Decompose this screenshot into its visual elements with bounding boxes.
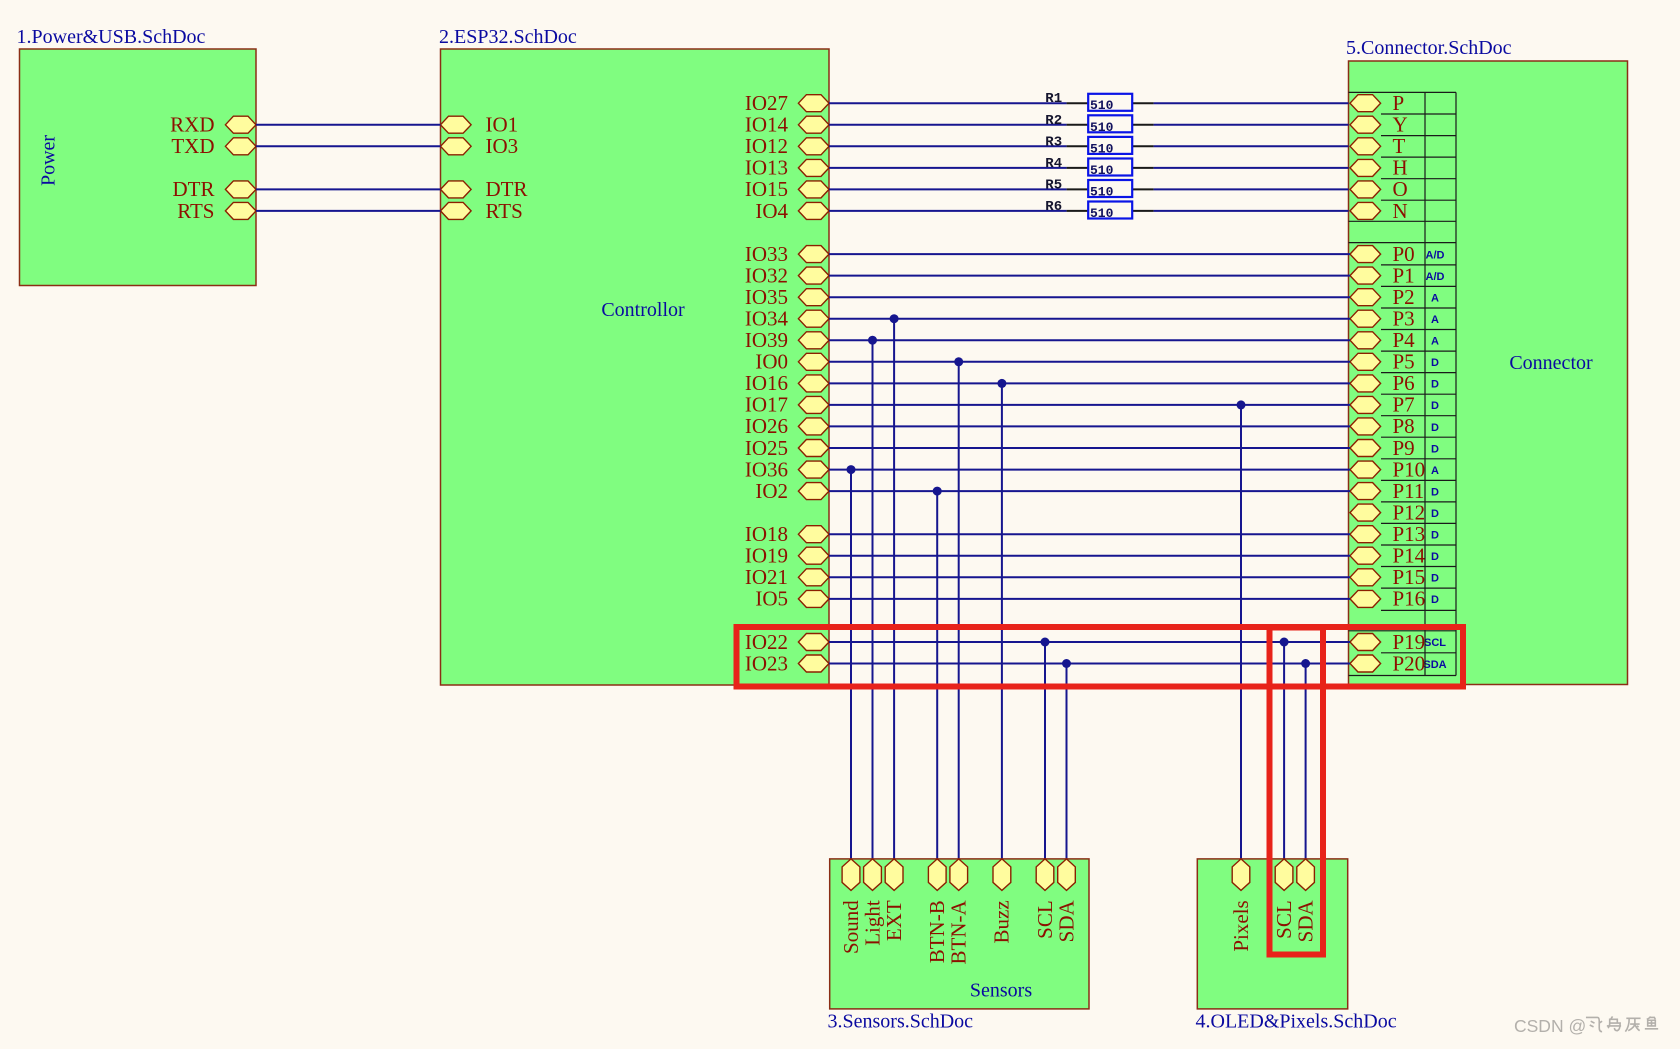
port P8 (Connector)	[1350, 414, 1439, 438]
wire DTR Power to ESP32	[256, 188, 441, 190]
svg-text:IO13: IO13	[745, 156, 788, 180]
svg-text:P8: P8	[1393, 414, 1415, 438]
svg-text:510: 510	[1090, 141, 1114, 156]
svg-text:D: D	[1431, 379, 1439, 391]
port RTS (Power)	[177, 199, 256, 223]
sheet symbol 5.Connector	[1349, 61, 1628, 685]
wire ESP32 to Connector	[829, 339, 1350, 341]
wire drop to SDA	[1066, 664, 1068, 859]
svg-text:SDA: SDA	[1423, 659, 1446, 671]
wire IO row to resistor R4	[829, 167, 1067, 169]
wire drop to SCL	[1044, 642, 1046, 859]
sheet symbol 2.ESP32 (Controllor)	[441, 49, 830, 685]
svg-text:IO5: IO5	[755, 587, 788, 611]
svg-text:510: 510	[1090, 120, 1114, 135]
junction at SCL drop	[1041, 638, 1050, 647]
svg-text:D: D	[1431, 551, 1439, 563]
junction at SDA2 drop	[1301, 659, 1310, 668]
svg-text:P9: P9	[1393, 436, 1415, 460]
port P12 (Connector)	[1350, 500, 1439, 524]
svg-text:D: D	[1431, 594, 1439, 606]
port IO15 (ESP32 right)	[745, 177, 829, 201]
port IO21 (ESP32 right)	[745, 565, 829, 589]
svg-text:510: 510	[1090, 184, 1114, 199]
svg-text:510: 510	[1090, 98, 1114, 113]
svg-text:H: H	[1393, 156, 1408, 180]
port IO1 (ESP32 left)	[441, 113, 519, 137]
port P6 (Connector)	[1350, 371, 1439, 395]
svg-text:IO12: IO12	[745, 134, 788, 158]
svg-text:A: A	[1431, 293, 1439, 305]
port TXD (Power)	[171, 134, 256, 158]
resistor R1 value 510	[1045, 91, 1153, 113]
svg-text:IO35: IO35	[745, 285, 788, 309]
port IO5 (ESP32 right)	[755, 587, 829, 611]
junction at Pixels drop	[1237, 400, 1246, 409]
svg-text:TXD: TXD	[171, 134, 214, 158]
wire RXD Power to ESP32	[256, 124, 441, 126]
svg-text:IO14: IO14	[745, 113, 789, 137]
junction at EXT drop	[890, 314, 899, 323]
port H (Connector)	[1350, 156, 1408, 180]
svg-text:IO23: IO23	[745, 651, 788, 675]
port P0 (Connector)	[1350, 242, 1445, 266]
port P (Connector)	[1350, 91, 1404, 115]
svg-text:A/D: A/D	[1426, 249, 1445, 261]
svg-text:IO36: IO36	[745, 457, 788, 481]
port IO18 (ESP32 right)	[745, 522, 829, 546]
wire drop to EXT	[893, 319, 895, 859]
resistor R3 value 510	[1045, 134, 1153, 156]
port IO25 (ESP32 right)	[745, 436, 829, 460]
svg-text:SCL: SCL	[1272, 900, 1296, 939]
sheet symbol 1.Power&USB (Power)	[20, 49, 257, 286]
port IO36 (ESP32 right)	[745, 457, 829, 481]
junction at SCL2 drop	[1280, 638, 1289, 647]
wire drop to SCL2	[1283, 642, 1285, 859]
junction at Buzz drop	[997, 379, 1006, 388]
svg-text:A: A	[1431, 314, 1439, 326]
svg-text:P: P	[1393, 91, 1405, 115]
svg-text:P16: P16	[1393, 587, 1426, 611]
wire ESP32 to Connector	[829, 447, 1350, 449]
svg-text:SDA: SDA	[1054, 899, 1078, 942]
port N (Connector)	[1350, 199, 1408, 223]
resistor R2 value 510	[1045, 113, 1153, 135]
wire ESP32 to Connector	[829, 598, 1350, 600]
svg-text:T: T	[1393, 134, 1406, 158]
svg-text:A: A	[1431, 336, 1439, 348]
svg-text:P6: P6	[1393, 371, 1415, 395]
svg-text:IO25: IO25	[745, 436, 788, 460]
port IO32 (ESP32 right)	[745, 263, 829, 287]
wire drop to Light	[872, 340, 874, 859]
port Y (Connector)	[1350, 113, 1408, 137]
port T (Connector)	[1350, 134, 1406, 158]
port P15 (Connector)	[1350, 565, 1439, 589]
svg-text:IO17: IO17	[745, 393, 788, 417]
port P11 (Connector)	[1350, 479, 1439, 503]
port IO35 (ESP32 right)	[745, 285, 829, 309]
port P20 (Connector)	[1350, 651, 1447, 675]
port IO2 (ESP32 right)	[755, 479, 829, 503]
wire ESP32 to Connector	[829, 425, 1350, 427]
svg-text:R1: R1	[1045, 91, 1062, 107]
port IO34 (ESP32 right)	[745, 307, 829, 331]
svg-text:IO0: IO0	[755, 350, 788, 374]
port IO0 (ESP32 right)	[755, 350, 829, 374]
red highlight box IO22/IO23 row	[737, 627, 1464, 687]
wire ESP32 to Connector	[829, 576, 1350, 578]
port BTN-A (Sensors)	[947, 859, 971, 965]
wire ESP32 to Connector	[829, 318, 1350, 320]
svg-text:O: O	[1393, 177, 1408, 201]
svg-text:P13: P13	[1393, 522, 1426, 546]
svg-text:N: N	[1393, 199, 1408, 223]
wire RTS Power to ESP32	[256, 210, 441, 212]
svg-text:IO26: IO26	[745, 414, 788, 438]
wire ESP32 to Connector	[829, 275, 1350, 277]
port P1 (Connector)	[1350, 263, 1445, 287]
svg-text:D: D	[1431, 422, 1439, 434]
wire ESP32 to Connector	[829, 490, 1350, 492]
svg-text:IO33: IO33	[745, 242, 788, 266]
svg-text:P2: P2	[1393, 285, 1415, 309]
resistor R6 value 510	[1045, 199, 1153, 221]
junction at BTN-A drop	[954, 357, 963, 366]
sheet symbol 4.OLED&Pixels	[1197, 859, 1347, 1009]
svg-text:P11: P11	[1393, 479, 1425, 503]
svg-text:510: 510	[1090, 163, 1114, 178]
wire resistor R2 to Connector	[1154, 124, 1349, 126]
svg-text:R6: R6	[1045, 199, 1062, 215]
svg-text:Buzz: Buzz	[990, 900, 1014, 943]
wire IO row to resistor R5	[829, 188, 1067, 190]
wire drop to Pixels	[1240, 405, 1242, 859]
svg-text:EXT: EXT	[882, 900, 906, 941]
svg-text:P12: P12	[1393, 500, 1426, 524]
port DTR (Power)	[173, 177, 257, 201]
port P5 (Connector)	[1350, 350, 1439, 374]
port SCL (Sensors)	[1033, 859, 1057, 939]
svg-text:RTS: RTS	[486, 199, 523, 223]
wire drop to Buzz	[1001, 383, 1003, 859]
port P3 (Connector)	[1350, 307, 1439, 331]
svg-text:P4: P4	[1393, 328, 1416, 352]
wire ESP32 to Connector	[829, 296, 1350, 298]
red highlight box SCL/SDA column	[1270, 628, 1324, 955]
svg-text:P5: P5	[1393, 350, 1415, 374]
port IO33 (ESP32 right)	[745, 242, 829, 266]
svg-text:Pixels: Pixels	[1229, 900, 1253, 951]
port P10 (Connector)	[1350, 457, 1439, 481]
svg-text:P14: P14	[1393, 544, 1426, 568]
svg-text:Power: Power	[38, 135, 60, 186]
port IO17 (ESP32 right)	[745, 393, 829, 417]
port P16 (Connector)	[1350, 587, 1439, 611]
wire IO row to resistor R3	[829, 145, 1067, 147]
svg-text:IO19: IO19	[745, 544, 788, 568]
svg-text:SCL: SCL	[1424, 637, 1446, 649]
wire resistor R5 to Connector	[1154, 188, 1349, 190]
svg-text:P19: P19	[1393, 630, 1426, 654]
svg-text:Connector: Connector	[1509, 352, 1593, 374]
svg-text:3.Sensors.SchDoc: 3.Sensors.SchDoc	[828, 1011, 974, 1033]
wire drop to SDA2	[1305, 664, 1307, 859]
svg-text:5.Connector.SchDoc: 5.Connector.SchDoc	[1346, 37, 1512, 59]
svg-text:P20: P20	[1393, 651, 1426, 675]
svg-text:P10: P10	[1393, 457, 1426, 481]
port SCL (OLED&Pixels)	[1272, 859, 1296, 939]
svg-text:IO3: IO3	[486, 134, 519, 158]
svg-text:R4: R4	[1045, 156, 1062, 172]
connector pin table lines	[1349, 92, 1457, 675]
port Buzz (Sensors)	[990, 859, 1014, 944]
svg-text:Sound: Sound	[839, 900, 863, 954]
wire ESP32 to Connector	[829, 641, 1350, 643]
resistor R4 value 510	[1045, 156, 1153, 178]
svg-text:RTS: RTS	[177, 199, 214, 223]
port IO14 (ESP32 right)	[745, 113, 829, 137]
wire drop to BTN-A	[958, 362, 960, 859]
wire IO row to resistor R1	[829, 102, 1067, 104]
wire resistor R3 to Connector	[1154, 145, 1349, 147]
svg-text:SCL: SCL	[1033, 900, 1057, 939]
port EXT (Sensors)	[882, 859, 906, 941]
port IO4 (ESP32 right)	[755, 199, 829, 223]
port Light (Sensors)	[860, 859, 884, 946]
port IO27 (ESP32 right)	[745, 91, 829, 115]
resistor R5 value 510	[1045, 177, 1153, 199]
svg-text:P1: P1	[1393, 263, 1415, 287]
svg-text:IO27: IO27	[745, 91, 788, 115]
port P4 (Connector)	[1350, 328, 1439, 352]
port IO12 (ESP32 right)	[745, 134, 829, 158]
port IO22 (ESP32 right)	[745, 630, 829, 654]
svg-text:Controllor: Controllor	[601, 299, 685, 321]
port P7 (Connector)	[1350, 393, 1439, 417]
svg-text:510: 510	[1090, 206, 1114, 221]
svg-text:D: D	[1431, 530, 1439, 542]
svg-text:D: D	[1431, 508, 1439, 520]
svg-text:P15: P15	[1393, 565, 1426, 589]
port IO19 (ESP32 right)	[745, 544, 829, 568]
port P9 (Connector)	[1350, 436, 1439, 460]
svg-text:P7: P7	[1393, 393, 1415, 417]
wire drop to Sound	[850, 470, 852, 859]
junction at BTN-B drop	[933, 487, 942, 496]
port IO3 (ESP32 left)	[441, 134, 519, 158]
watermark glyphs	[1586, 1016, 1658, 1031]
svg-text:IO32: IO32	[745, 263, 788, 287]
wire ESP32 to Connector	[829, 253, 1350, 255]
svg-text:IO21: IO21	[745, 565, 788, 589]
junction at Sound drop	[847, 465, 856, 474]
svg-text:2.ESP32.SchDoc: 2.ESP32.SchDoc	[439, 26, 577, 48]
wire resistor R1 to Connector	[1154, 102, 1349, 104]
port SDA (OLED&Pixels)	[1293, 859, 1317, 942]
svg-text:Y: Y	[1393, 113, 1408, 137]
svg-text:IO4: IO4	[755, 199, 788, 223]
port BTN-B (Sensors)	[925, 859, 949, 963]
port O (Connector)	[1350, 177, 1408, 201]
svg-text:IO16: IO16	[745, 371, 788, 395]
svg-text:IO39: IO39	[745, 328, 788, 352]
svg-text:DTR: DTR	[486, 177, 528, 201]
wire resistor R4 to Connector	[1154, 167, 1349, 169]
port P2 (Connector)	[1350, 285, 1439, 309]
svg-text:D: D	[1431, 443, 1439, 455]
svg-text:4.OLED&Pixels.SchDoc: 4.OLED&Pixels.SchDoc	[1196, 1011, 1397, 1033]
port P13 (Connector)	[1350, 522, 1439, 546]
svg-text:D: D	[1431, 357, 1439, 369]
svg-text:BTN-A: BTN-A	[947, 899, 971, 964]
port IO23 (ESP32 right)	[745, 651, 829, 675]
svg-text:IO22: IO22	[745, 630, 788, 654]
svg-text:DTR: DTR	[173, 177, 215, 201]
junction at Light drop	[868, 336, 877, 345]
port IO13 (ESP32 right)	[745, 156, 829, 180]
port Pixels (OLED&Pixels)	[1229, 859, 1253, 952]
wire ESP32 to Connector	[829, 663, 1350, 665]
svg-text:1.Power&USB.SchDoc: 1.Power&USB.SchDoc	[17, 26, 206, 48]
svg-text:IO15: IO15	[745, 177, 788, 201]
wire TXD Power to ESP32	[256, 145, 441, 147]
port P19 (Connector)	[1350, 630, 1446, 654]
svg-text:D: D	[1431, 400, 1439, 412]
port RTS (ESP32 left)	[441, 199, 523, 223]
wire resistor R6 to Connector	[1154, 210, 1349, 212]
port Sound (Sensors)	[839, 859, 863, 954]
svg-text:D: D	[1431, 573, 1439, 585]
port DTR (ESP32 left)	[441, 177, 528, 201]
wire ESP32 to Connector	[829, 404, 1350, 406]
svg-text:R2: R2	[1045, 113, 1062, 129]
port IO16 (ESP32 right)	[745, 371, 829, 395]
svg-text:Light: Light	[860, 900, 884, 946]
svg-text:A/D: A/D	[1426, 271, 1445, 283]
svg-text:Sensors: Sensors	[970, 980, 1032, 1002]
svg-text:IO18: IO18	[745, 522, 788, 546]
wire ESP32 to Connector	[829, 361, 1350, 363]
sheet symbol 3.Sensors	[830, 859, 1089, 1009]
svg-text:CSDN @: CSDN @	[1514, 1016, 1586, 1036]
port SDA (Sensors)	[1054, 859, 1078, 942]
svg-text:P3: P3	[1393, 307, 1415, 331]
svg-text:A: A	[1431, 465, 1439, 477]
svg-text:RXD: RXD	[170, 113, 214, 137]
svg-text:R3: R3	[1045, 134, 1062, 150]
svg-text:IO34: IO34	[745, 307, 789, 331]
svg-text:R5: R5	[1045, 177, 1062, 193]
svg-text:IO1: IO1	[486, 113, 519, 137]
svg-text:P0: P0	[1393, 242, 1415, 266]
wire ESP32 to Connector	[829, 382, 1350, 384]
svg-text:SDA: SDA	[1293, 899, 1317, 942]
wire ESP32 to Connector	[829, 555, 1350, 557]
wire ESP32 to Connector	[829, 533, 1350, 535]
port P14 (Connector)	[1350, 544, 1439, 568]
svg-text:BTN-B: BTN-B	[925, 900, 949, 963]
svg-text:IO2: IO2	[755, 479, 788, 503]
wire drop to BTN-B	[936, 491, 938, 859]
port IO39 (ESP32 right)	[745, 328, 829, 352]
port IO26 (ESP32 right)	[745, 414, 829, 438]
port RXD (Power)	[170, 113, 256, 137]
wire IO row to resistor R6	[829, 210, 1067, 212]
wire IO row to resistor R2	[829, 124, 1067, 126]
wire ESP32 to Connector	[829, 469, 1350, 471]
svg-text:D: D	[1431, 486, 1439, 498]
junction at SDA drop	[1062, 659, 1071, 668]
